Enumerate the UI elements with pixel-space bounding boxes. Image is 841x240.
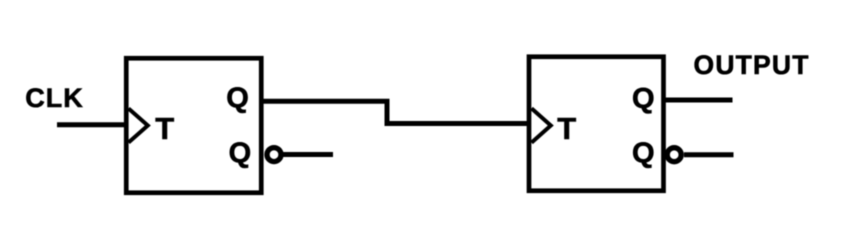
svg-text:Q: Q <box>632 83 655 115</box>
svg-text:T: T <box>155 111 174 146</box>
svg-text:Q: Q <box>229 137 252 169</box>
svg-text:Q: Q <box>632 137 655 169</box>
svg-text:T: T <box>557 111 576 146</box>
svg-text:Q: Q <box>226 83 249 115</box>
svg-text:OUTPUT: OUTPUT <box>694 50 810 80</box>
svg-text:CLK: CLK <box>25 83 84 113</box>
